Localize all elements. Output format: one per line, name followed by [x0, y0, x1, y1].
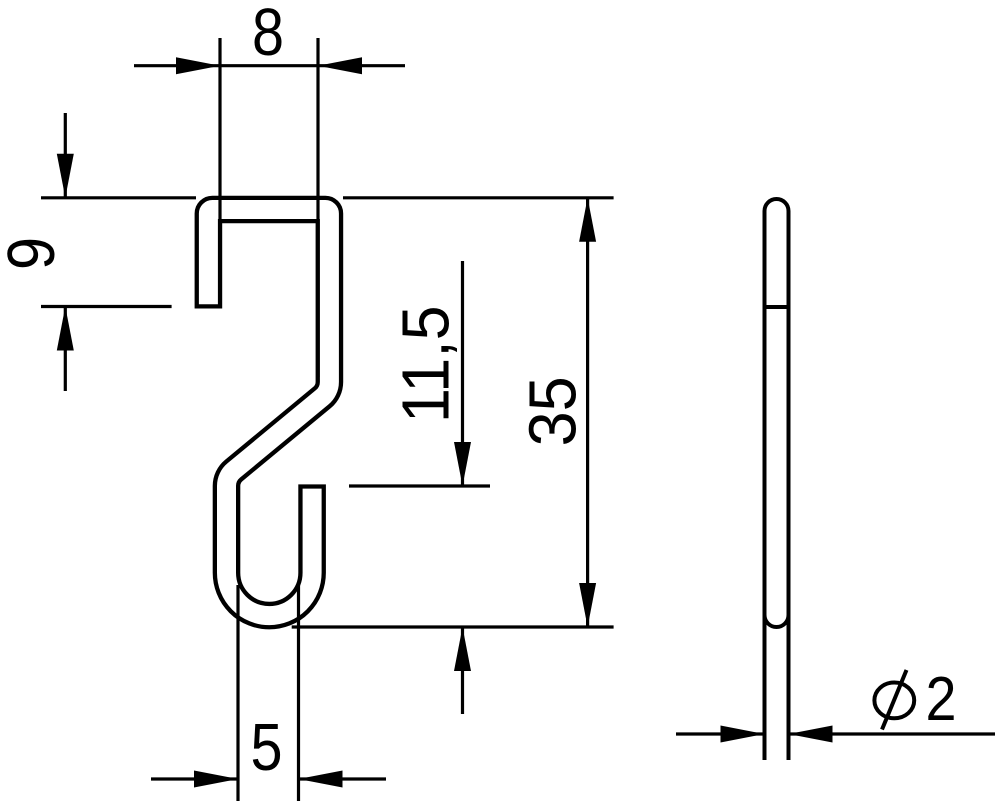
label 11,5 — [389, 305, 464, 423]
side view right outline — [787, 211, 791, 760]
arrow 11,5 bottom — [454, 627, 471, 671]
arrow 8 right — [318, 57, 362, 74]
svg-text:9: 9 — [0, 237, 69, 270]
arrow 8 left — [176, 57, 220, 74]
svg-text:5: 5 — [251, 710, 283, 785]
label 35 — [516, 376, 591, 446]
dim line 9 bottom part — [64, 307, 67, 392]
svg-text:35: 35 — [516, 376, 591, 446]
svg-text:11,5: 11,5 — [389, 305, 464, 423]
side view bottom cap — [765, 615, 789, 627]
dim line diameter-2 left part — [676, 732, 765, 735]
extension line 5-right — [297, 585, 300, 801]
extension line 9-top / 35-top — [41, 196, 196, 199]
dim line diameter-2 right part — [789, 732, 996, 735]
dim line 5 right part — [299, 777, 387, 780]
label 9 — [0, 237, 69, 270]
arrow 9 top — [57, 154, 74, 198]
dim line 8 — [134, 64, 405, 67]
side view wire-end tick — [763, 305, 790, 309]
extension line bottom (35 / 11,5) — [292, 625, 614, 628]
extension line 8-right — [316, 38, 319, 377]
arrow 35 bottom — [579, 583, 596, 627]
arrow 35 top — [579, 198, 596, 242]
extension line hook tip (11,5 top) — [349, 484, 490, 487]
arrow 5 right — [299, 771, 343, 788]
wire hook body (front view): white inner stroke leaving outline — [208, 210, 329, 616]
arrow diameter-2 right — [789, 726, 833, 743]
extension line 5-left — [236, 585, 239, 801]
dim line 11,5 bottom part — [461, 627, 464, 714]
dim line 35 — [586, 198, 589, 627]
arrow diameter-2 left — [721, 726, 765, 743]
side view top cap — [765, 199, 789, 211]
svg-text:2: 2 — [926, 665, 957, 734]
arrow 5 left — [194, 771, 238, 788]
arrow 11,5 top — [454, 442, 471, 486]
dim line 11,5 top part — [461, 261, 464, 486]
extension line 9-bottom — [41, 305, 172, 308]
dim line 9 top part — [64, 113, 67, 198]
arrow 9 bottom — [57, 307, 74, 351]
dim line 5 left part — [151, 777, 238, 780]
extension line 8-left — [218, 38, 221, 308]
diameter symbol — [874, 683, 914, 719]
svg-text:8: 8 — [252, 0, 284, 70]
wire hook body (front view): black fat stroke — [208, 210, 329, 616]
side view left outline — [763, 211, 767, 760]
